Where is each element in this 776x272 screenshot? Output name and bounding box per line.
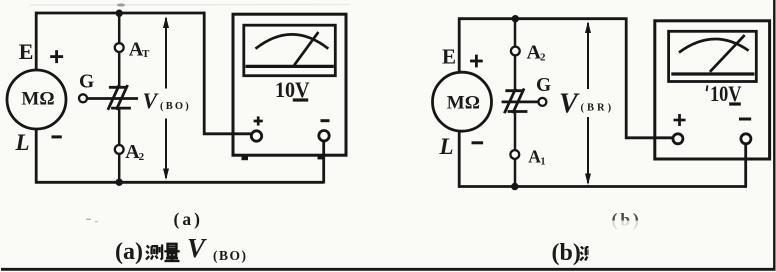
wire: left vertical upper (b) <box>458 18 461 73</box>
wire: left vertical lower (a) <box>35 129 38 184</box>
wire: branch bottom segment (a) <box>118 154 121 183</box>
terminal minus circle voltmeter (a) <box>319 131 329 141</box>
node: top junction (a) <box>116 10 123 17</box>
wire: top horizontal (a) <box>35 12 205 15</box>
voltage annotation line VBO lower (a) <box>165 119 167 179</box>
page bottom rule <box>1 268 776 271</box>
svg-text:10V: 10V <box>710 81 742 106</box>
svg-text:MΩ: MΩ <box>447 92 480 113</box>
svg-text:T: T <box>142 48 150 60</box>
terminal A2 circle (a) <box>115 145 124 154</box>
svg-text:MΩ: MΩ <box>21 88 54 109</box>
arrowhead down VBO <box>163 169 169 181</box>
svg-text:E: E <box>19 39 34 64</box>
wire: branch bottom segment (b) <box>514 159 517 187</box>
wire: branch segment thyristor to A2 (a) <box>118 108 121 145</box>
svg-text:G: G <box>79 72 94 93</box>
gate lead wire (b) <box>502 101 539 104</box>
caption CJK 量 <box>164 244 179 261</box>
svg-text:(BO): (BO) <box>160 101 191 112</box>
svg-text:V: V <box>143 88 160 113</box>
svg-text:L: L <box>439 134 454 159</box>
wire: branch top segment (a) <box>118 13 121 43</box>
meter scale arc (a) <box>256 34 329 48</box>
voltage annotation line VBO upper (a) <box>165 18 167 89</box>
wire: branch top segment (b) <box>514 19 517 47</box>
svg-text:2: 2 <box>540 52 546 64</box>
wire: voltmeter minus down (b) <box>744 144 747 188</box>
terminal A2 circle (b) <box>511 47 520 56</box>
terminal A1 circle (b) <box>510 150 519 159</box>
voltmeter V2 outer box (b) <box>655 21 770 159</box>
wire: branch segment thyristor to A1 (b) <box>514 113 517 151</box>
svg-text:2: 2 <box>139 151 145 163</box>
scan speck <box>86 219 91 221</box>
megohmmeter M1 circle (a) <box>7 70 66 129</box>
minus mark voltmeter (b) <box>739 118 751 121</box>
faint scan smudge top <box>30 4 350 7</box>
polarity − (a meter) <box>52 135 62 138</box>
plus mark voltmeter (b) <box>674 114 686 126</box>
wire: left vertical upper (a) <box>35 12 38 71</box>
voltage annotation line VBR lower (b) <box>587 117 589 183</box>
terminal plus circle voltmeter (b) <box>673 134 683 144</box>
underline under V (a) <box>293 98 308 101</box>
terminal AT circle (a) <box>115 43 124 52</box>
voltmeter foot right (a) <box>318 156 325 159</box>
wire: to voltmeter plus (b) <box>625 136 673 139</box>
voltmeter foot left (a) <box>242 156 249 160</box>
wire: bottom horizontal (b) <box>458 185 747 188</box>
minus mark voltmeter (a) <box>321 119 330 122</box>
wire: voltmeter minus down (a) <box>322 141 325 184</box>
gate terminal circle G (a) <box>79 94 87 102</box>
terminal minus circle voltmeter (b) <box>741 134 751 144</box>
thyristor symbol (a) <box>108 85 131 110</box>
sub-label (b) faded <box>612 210 642 230</box>
page right border <box>773 0 775 270</box>
svg-text:L: L <box>15 130 30 155</box>
plus mark voltmeter (a) <box>254 116 263 125</box>
thyristor symbol (b) <box>504 88 527 113</box>
meter scale arc (b) <box>679 39 749 52</box>
arrowhead up VBO <box>163 16 169 28</box>
gate terminal circle G (b) <box>538 98 546 106</box>
voltage annotation line VBR upper (b) <box>587 23 589 89</box>
meter needle (b) <box>710 35 745 72</box>
svg-text:1: 1 <box>541 157 546 168</box>
node: top junction (b) <box>512 15 519 22</box>
svg-text:(BO): (BO) <box>213 248 248 263</box>
wire: branch segment AT to thyristor (a) <box>118 52 121 88</box>
voltmeter V1 outer box (a) <box>233 14 346 155</box>
svg-text:V: V <box>187 233 207 263</box>
wire: loop right vertical (b) <box>625 18 628 140</box>
arrowhead up VBR <box>585 21 591 33</box>
scan artifact apostrophe before 10V <box>707 85 708 91</box>
wire: top horizontal (b) <box>458 17 627 20</box>
svg-text:(b): (b) <box>552 240 581 266</box>
megohmmeter M2 circle (b) <box>433 72 492 131</box>
svg-text:(a): (a) <box>174 209 203 229</box>
node: bottom junction (a) <box>116 179 123 186</box>
caption CJK 测 <box>146 245 162 260</box>
underline under V (b) <box>729 102 741 105</box>
wire: loop right vertical (a) <box>203 12 206 135</box>
node: bottom junction (b) <box>511 183 518 190</box>
meter scale plate bar (b) <box>671 72 754 75</box>
wire: to voltmeter plus (a) <box>203 132 252 135</box>
svg-text:A: A <box>528 147 541 167</box>
svg-text:G: G <box>536 75 551 96</box>
svg-text:(a): (a) <box>115 239 143 265</box>
svg-text:E: E <box>442 45 456 69</box>
arrowhead down VBR <box>585 174 591 186</box>
svg-text:V: V <box>559 89 580 120</box>
gate lead wire (a) <box>87 97 138 100</box>
svg-text:(BR): (BR) <box>581 103 615 114</box>
terminal plus circle voltmeter (a) <box>251 131 261 141</box>
wire: bottom horizontal (a) <box>35 181 324 184</box>
wire: branch segment A2 to thyristor (b) <box>514 55 517 91</box>
polarity + (a meter) <box>50 50 63 63</box>
polarity − (b meter) <box>472 141 484 144</box>
wire: left vertical lower (b) <box>458 131 461 188</box>
meter needle (a) <box>294 32 318 65</box>
voltmeter V2 display box (b) <box>669 31 757 81</box>
polarity + (b meter) <box>470 55 483 68</box>
meter scale plate bar (a) <box>246 65 334 68</box>
voltmeter V1 display box (a) <box>244 25 335 75</box>
